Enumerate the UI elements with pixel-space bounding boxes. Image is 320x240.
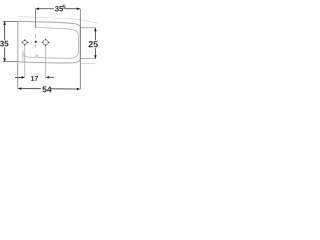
label 54 <box>42 86 51 92</box>
arrowhead up of dim 25 <box>94 28 97 32</box>
dimension 35.5 (top) <box>36 8 54 10</box>
dimension 17 (bottom) <box>15 76 21 78</box>
dimension 25 (right) <box>81 27 96 29</box>
centerline through tap hole <box>35 9 37 28</box>
inner rim outline <box>23 27 79 58</box>
bidet outer outline (plan view) <box>18 21 81 63</box>
arrowhead left of dim 54 <box>18 87 22 90</box>
arrowhead left of dim 35.5 <box>35 7 39 10</box>
dimension 35 (left) <box>3 20 18 22</box>
inner front seam <box>22 51 24 62</box>
arrowhead down of dim 35 <box>3 58 6 62</box>
faint sloping line top right <box>80 20 98 24</box>
background <box>0 0 100 100</box>
arrowhead left-pointing at big hole line <box>46 76 50 79</box>
label 25 <box>89 41 98 47</box>
label 17 <box>31 76 38 81</box>
label 35.5 <box>55 6 63 12</box>
big hole symbol (crossed circle) <box>42 39 49 47</box>
faint line bottom right (cropped wall line) <box>80 63 94 65</box>
front extension line <box>17 62 19 89</box>
arrowhead right of dim 54 <box>77 88 81 91</box>
drain dot <box>35 41 37 43</box>
arrowhead right of dim 35.5 <box>77 7 81 10</box>
extension line from small hole down <box>24 46 26 77</box>
arrowhead up of dim 35 <box>3 21 6 25</box>
dimension 54 (bottom) <box>21 88 41 90</box>
extension line from big hole down <box>45 47 47 79</box>
label 35 <box>0 41 8 47</box>
arrowhead right-pointing at small hole line <box>22 76 26 79</box>
arrowhead down of dim 25 <box>94 55 97 59</box>
faint outer rim line (top) <box>18 17 81 20</box>
small hole symbol (crossed circle) <box>22 39 29 46</box>
back extension line (wall edge) <box>79 9 81 90</box>
